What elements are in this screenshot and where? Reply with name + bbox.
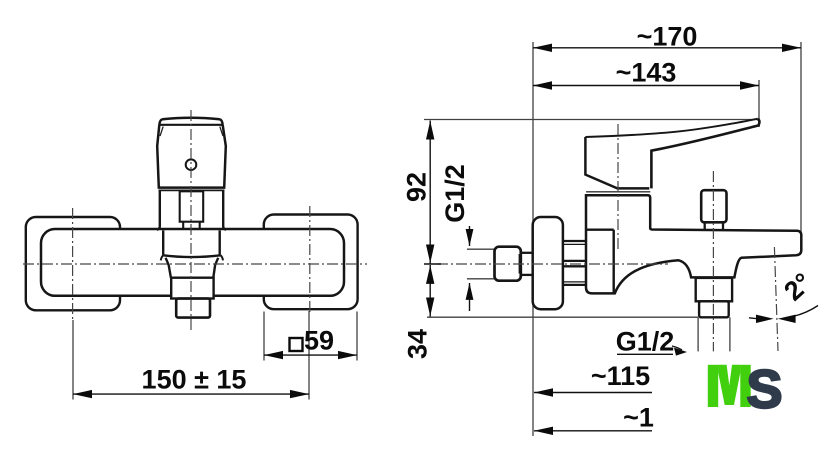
- svg-text:S: S: [747, 360, 783, 420]
- svg-text:92: 92: [402, 172, 432, 202]
- svg-text:~115: ~115: [591, 361, 650, 391]
- svg-text:2°: 2°: [778, 267, 817, 307]
- svg-text:G1/2: G1/2: [440, 164, 470, 223]
- svg-text:~170: ~170: [637, 22, 698, 52]
- svg-text:~143: ~143: [616, 58, 677, 88]
- svg-text:~1: ~1: [623, 403, 654, 433]
- svg-text:34: 34: [403, 329, 433, 359]
- svg-text:G1/2: G1/2: [616, 327, 675, 357]
- svg-text:59: 59: [304, 326, 334, 356]
- svg-text:150 ± 15: 150 ± 15: [142, 365, 247, 395]
